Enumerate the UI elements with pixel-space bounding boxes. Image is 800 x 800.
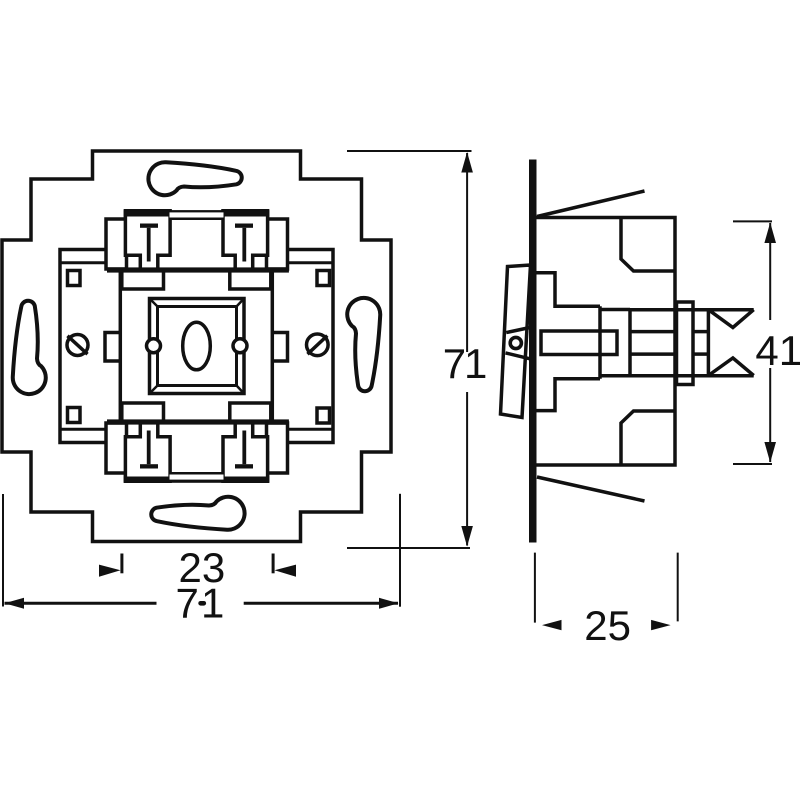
- claw pivot flag upper diagonal: [506, 328, 530, 333]
- dim 25: extension line right: [677, 553, 679, 622]
- body outline: [537, 218, 676, 466]
- rocker oval: [183, 322, 211, 370]
- body lug left: [105, 333, 120, 362]
- screw left: [67, 335, 88, 356]
- mounting slot bottom: [151, 497, 244, 530]
- body foot bottom-left: [122, 403, 164, 420]
- corner hole bottom-left: [68, 408, 81, 423]
- dim 41: dimension line: [769, 223, 771, 320]
- terminal block top: main box: [126, 212, 268, 270]
- chamfer block bottom-right: [621, 411, 675, 465]
- body foot bottom-right: [230, 403, 271, 420]
- dim 71 vertical: dimension line: [466, 153, 468, 352]
- switch body side left: [119, 270, 123, 422]
- clip vertical: [707, 311, 711, 375]
- body step profile upper: [537, 273, 601, 307]
- clip bottom line: [630, 374, 754, 378]
- dim 7.1 bottom: dimension line: [5, 602, 399, 605]
- claw support ring (stepped octagon outline, front view): [2, 151, 391, 542]
- dim 71 vertical: extension line top: [347, 150, 472, 152]
- retaining ring: [677, 302, 694, 385]
- terminal clamp top-left: [125, 211, 170, 270]
- chamfer block top-right: [621, 218, 675, 272]
- mounting slot top (kidney slot): [148, 162, 241, 195]
- body foot top-right: [230, 273, 271, 290]
- T mark top-right: [235, 224, 253, 262]
- rocker frame inner: [158, 307, 237, 386]
- dim 25: extension line left: [534, 553, 536, 623]
- svg-text:25: 25: [584, 602, 631, 649]
- claw pivot ring: [510, 337, 521, 348]
- claw diagonal top: [537, 191, 645, 217]
- plate rim line bottom: [60, 428, 333, 431]
- T mark bottom-right: [235, 431, 253, 469]
- frame pivot circle right: [233, 339, 247, 353]
- terminal clamp bottom-right: [223, 422, 268, 481]
- corner hole top-right: [317, 271, 330, 286]
- mounting slot left: [13, 301, 46, 394]
- claw pivot flag lower diagonal: [506, 353, 531, 359]
- plate rim line top: [60, 261, 333, 264]
- terminal wing top-left: [106, 219, 127, 269]
- inner mounting plate: [60, 250, 333, 443]
- dim 71 vertical: extension line bottom: [347, 547, 470, 549]
- mounting slot right: [347, 298, 380, 391]
- dim 41: arrowheads: [764, 223, 776, 463]
- dim 7.1 bottom: arrowheads: [5, 598, 399, 609]
- claw diagonal bottom: [537, 477, 645, 501]
- terminal clamp top-right: [223, 211, 268, 270]
- frame bevel diagonals: [150, 299, 245, 394]
- body lug right: [272, 333, 287, 362]
- corner hole bottom-right: [317, 408, 330, 423]
- body foot top-left: [122, 273, 164, 290]
- shaft end lines: [693, 330, 708, 334]
- dim 71 vertical: arrowheads: [461, 152, 473, 547]
- frame pivot circle left: [147, 339, 161, 353]
- clip spring bottom V: [708, 358, 753, 376]
- rocker frame outer: [150, 299, 245, 394]
- svg-text:1: 1: [464, 340, 487, 387]
- top block black rim band: [124, 210, 269, 216]
- terminal clamp bottom-left: [125, 422, 170, 481]
- dim 7.1 bottom: extension line right: [399, 494, 401, 607]
- body front wall column: [598, 306, 602, 379]
- clip spring top V: [708, 310, 753, 328]
- svg-text:41: 41: [755, 327, 800, 374]
- svg-text:23: 23: [179, 544, 226, 591]
- T mark bottom-left: [140, 431, 158, 469]
- terminal block bottom: main box: [126, 423, 268, 481]
- terminal wing top-right: [267, 219, 288, 269]
- rocker lever (tilted, edge view): [501, 265, 531, 418]
- dim 41: extension line top: [733, 220, 772, 222]
- plunger shaft: [541, 331, 617, 355]
- dim 41: extension line bottom: [733, 463, 772, 465]
- dim 7.1 bottom: extension line left: [2, 494, 4, 607]
- corner hole top-left: [68, 271, 81, 286]
- clip top line: [630, 308, 754, 312]
- switch body side right: [271, 270, 275, 422]
- wall plate (edge-on, thick bar): [529, 160, 537, 543]
- terminal wing bottom-left: [106, 423, 127, 473]
- bottom block top thick band: [107, 419, 289, 424]
- T mark top-left: [140, 224, 158, 262]
- svg-text:7: 7: [443, 340, 466, 387]
- shaft mid lines: [630, 330, 677, 334]
- dim 23: arrowheads: [99, 565, 296, 577]
- screw right: [307, 334, 329, 356]
- bottom block black rim band: [124, 477, 269, 483]
- body step profile lower: [537, 379, 601, 411]
- dim 25: arrowheads: [542, 620, 671, 630]
- dim 23: tick left: [122, 554, 273, 574]
- top block bottom thick band: [107, 267, 289, 272]
- terminal wing bottom-right: [267, 423, 288, 473]
